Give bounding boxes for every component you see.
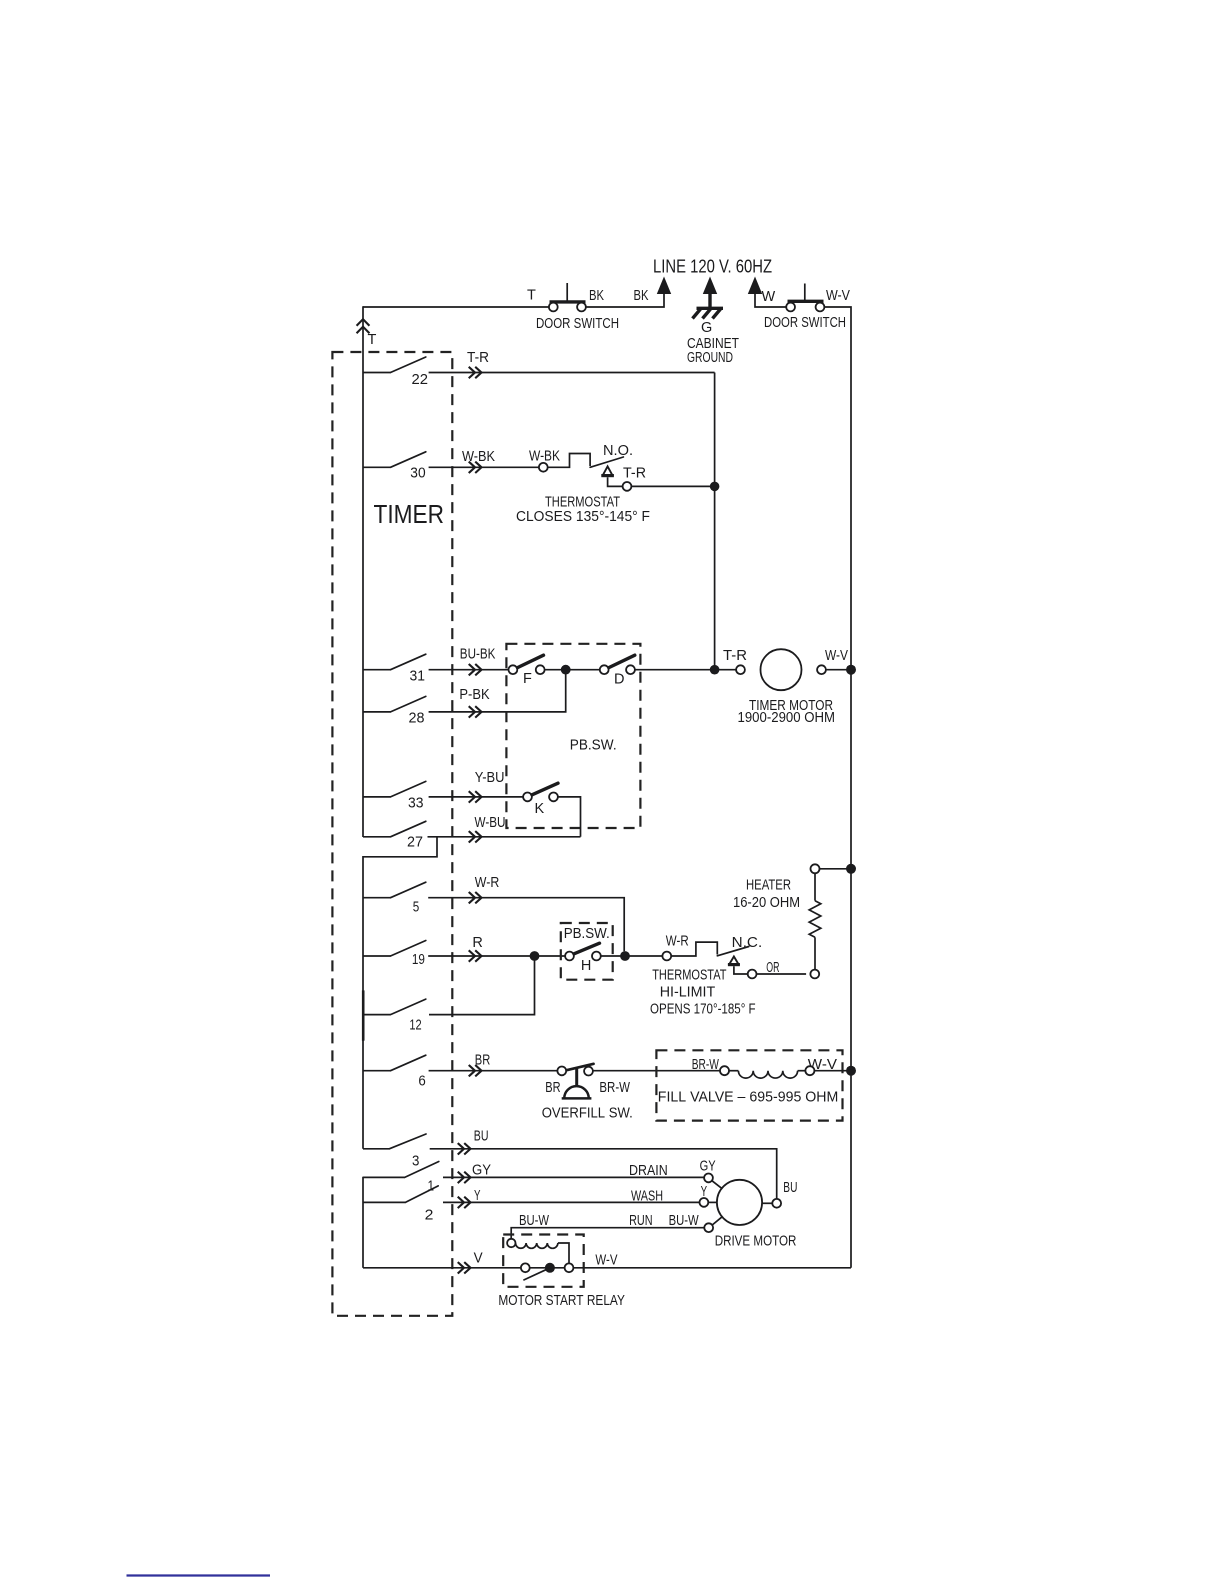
svg-text:H: H bbox=[581, 958, 591, 974]
label BR terminal bbox=[545, 1080, 560, 1096]
svg-text:12: 12 bbox=[409, 1017, 421, 1033]
svg-text:T-R: T-R bbox=[623, 466, 646, 482]
label T bbox=[527, 288, 536, 304]
svg-text:Y: Y bbox=[701, 1184, 708, 1200]
wire switch 31 to contact F bbox=[429, 669, 509, 671]
motor start relay coil bbox=[507, 1239, 569, 1264]
label W bbox=[762, 289, 776, 305]
timer switch 31 bbox=[363, 654, 426, 684]
wire vertical node T-R bbox=[714, 373, 716, 670]
wire switch 6 to overfill switch bbox=[429, 1070, 558, 1072]
label W-BK terminal bbox=[529, 449, 560, 465]
label W-V relay output bbox=[595, 1253, 617, 1269]
label DRIVE MOTOR bbox=[715, 1234, 797, 1250]
push button switch H dashed box bbox=[561, 923, 613, 980]
svg-text:THERMOSTAT: THERMOSTAT bbox=[652, 968, 726, 984]
wire switch 1 DRAIN to drive motor GY bbox=[443, 1176, 704, 1178]
label P-BK bbox=[459, 687, 489, 703]
label DOOR SWITCH bbox=[536, 316, 619, 332]
svg-text:OVERFILL SW.: OVERFILL SW. bbox=[542, 1106, 633, 1122]
wire switch 3 to drive motor BU bbox=[430, 1149, 777, 1199]
connector chevrons row 6 bbox=[470, 1066, 482, 1076]
timer switch 33 bbox=[363, 781, 426, 811]
junction node F-D bbox=[561, 665, 571, 675]
drive motor bbox=[700, 1174, 782, 1233]
svg-text:K: K bbox=[535, 801, 545, 817]
svg-text:BK: BK bbox=[634, 288, 649, 304]
svg-text:30: 30 bbox=[410, 466, 425, 482]
label BR-W bbox=[692, 1057, 719, 1073]
svg-text:T-R: T-R bbox=[467, 350, 489, 366]
contact F bbox=[509, 655, 545, 687]
label BK bbox=[589, 288, 604, 304]
svg-text:27: 27 bbox=[407, 835, 423, 851]
wire overfill switch to fill valve bbox=[593, 1070, 720, 1072]
svg-text:F: F bbox=[523, 671, 532, 687]
label W-V bbox=[826, 288, 850, 304]
svg-text:31: 31 bbox=[410, 669, 426, 685]
thermostat N.O. closes 135-145F bbox=[539, 454, 632, 491]
overfill switch bbox=[557, 1064, 593, 1099]
connector chevrons row 3 bbox=[459, 1144, 471, 1154]
label Y motor terminal bbox=[701, 1184, 708, 1200]
timer switch 12 bbox=[363, 999, 426, 1033]
wire switch 19 to contact H bbox=[428, 955, 565, 957]
label T-R bbox=[723, 648, 747, 664]
svg-text:PB.SW.: PB.SW. bbox=[570, 737, 617, 753]
svg-text:W-BK: W-BK bbox=[529, 449, 560, 465]
svg-text:DOOR SWITCH: DOOR SWITCH bbox=[536, 316, 619, 332]
heater 16-20 ohm bbox=[809, 864, 851, 978]
junction node 5/19 bbox=[620, 951, 630, 961]
label BU-BK bbox=[460, 646, 496, 662]
junction W-V bus / timer motor bbox=[846, 665, 856, 675]
label BU-W motor terminal bbox=[669, 1213, 699, 1229]
label MOTOR START RELAY bbox=[498, 1293, 625, 1309]
label TIMER bbox=[374, 499, 445, 529]
label CABINET GROUND bbox=[687, 336, 739, 366]
timer switch 27 bbox=[363, 821, 426, 850]
svg-text:Y: Y bbox=[474, 1188, 481, 1204]
svg-text:1900-2900 OHM: 1900-2900 OHM bbox=[738, 710, 836, 726]
svg-text:D: D bbox=[614, 672, 624, 688]
label G bbox=[701, 320, 712, 336]
label BR bbox=[475, 1052, 491, 1068]
timer switch 28 bbox=[363, 696, 426, 726]
label BK bbox=[634, 288, 649, 304]
label W-BK bbox=[462, 449, 495, 465]
svg-text:P-BK: P-BK bbox=[459, 687, 489, 703]
svg-text:DRIVE MOTOR: DRIVE MOTOR bbox=[715, 1234, 797, 1250]
svg-text:Y-BU: Y-BU bbox=[475, 770, 505, 786]
svg-text:OR: OR bbox=[766, 960, 779, 976]
svg-text:W-R: W-R bbox=[666, 933, 689, 949]
connector chevrons row 30 bbox=[470, 462, 482, 472]
svg-text:6: 6 bbox=[418, 1074, 425, 1090]
wire contact H to hi-limit bbox=[601, 955, 663, 957]
label LINE 120 V. 60HZ bbox=[653, 257, 772, 277]
label W-V bbox=[825, 648, 848, 664]
svg-text:W-BU: W-BU bbox=[475, 815, 506, 831]
svg-text:MOTOR START RELAY: MOTOR START RELAY bbox=[498, 1293, 625, 1309]
timer switch 2 bbox=[363, 1186, 438, 1223]
wire switch 33 to contact K bbox=[429, 796, 523, 798]
junction W-V bus / fill valve bbox=[846, 1066, 856, 1076]
junction W-V bus / heater bbox=[846, 864, 856, 874]
timer switch 22 bbox=[363, 357, 428, 388]
label DOOR SWITCH bbox=[764, 315, 846, 331]
line terminal arrow G bbox=[703, 277, 717, 309]
timer switch 6 bbox=[363, 1055, 426, 1090]
timer switch 30 bbox=[363, 452, 426, 482]
label GY motor terminal bbox=[700, 1158, 716, 1174]
wire switch 28 riser to node F-D bbox=[429, 670, 566, 712]
svg-text:LINE 120 V. 60HZ: LINE 120 V. 60HZ bbox=[653, 257, 772, 277]
svg-text:16-20 OHM: 16-20 OHM bbox=[733, 895, 800, 911]
timer dashed box bbox=[332, 352, 452, 1316]
svg-text:PB.SW.: PB.SW. bbox=[564, 926, 610, 942]
contact K bbox=[523, 783, 558, 817]
fill valve coil bbox=[720, 1066, 814, 1078]
svg-text:R: R bbox=[472, 935, 482, 951]
wire switch 30 to thermostat bbox=[429, 466, 539, 468]
blue footer rule bbox=[127, 1574, 271, 1576]
junction node 19/12 bbox=[530, 951, 540, 961]
svg-text:WASH: WASH bbox=[631, 1189, 663, 1205]
wire timer motor to W-V bus bbox=[826, 669, 851, 671]
contact H bbox=[565, 943, 601, 974]
wire contact D to timer motor bbox=[635, 669, 715, 671]
svg-text:HEATER: HEATER bbox=[746, 878, 791, 894]
label THERMOSTAT HI-LIMIT OPENS 170-185 F bbox=[650, 968, 756, 1018]
label BR-W terminal bbox=[599, 1080, 630, 1096]
svg-text:5: 5 bbox=[413, 900, 420, 916]
wire contact K down to switch 27 row bbox=[558, 797, 581, 837]
svg-text:DOOR SWITCH: DOOR SWITCH bbox=[764, 315, 846, 331]
label OR bbox=[766, 960, 779, 976]
wire switch 5 drop to node R bbox=[428, 898, 624, 952]
svg-text:BU-BK: BU-BK bbox=[460, 646, 496, 662]
label W-R bbox=[475, 875, 500, 891]
wire door switch 1 to line arrow bbox=[586, 294, 664, 308]
contact D bbox=[600, 655, 635, 687]
wire junction to timer motor bbox=[715, 669, 737, 671]
label OVERFILL SW. bbox=[542, 1106, 633, 1122]
wire contact F to contact D bbox=[545, 669, 600, 671]
wire T bus left vertical upper bbox=[362, 306, 364, 837]
label BU-W bbox=[519, 1213, 549, 1229]
wire V row from T bus to relay bbox=[363, 1267, 521, 1269]
svg-text:RUN: RUN bbox=[629, 1213, 653, 1229]
wire fill valve to W-V bus bbox=[814, 1070, 851, 1072]
label V bbox=[474, 1251, 483, 1267]
wire switch 12 riser to node 19 bbox=[429, 956, 535, 1015]
connector chevrons on T bus bbox=[357, 319, 368, 332]
wire W-V bus right vertical bbox=[824, 307, 851, 1268]
connector chevrons row 31 bbox=[470, 665, 482, 675]
svg-text:W-V: W-V bbox=[595, 1253, 617, 1269]
label DRAIN bbox=[629, 1163, 668, 1179]
label R bbox=[472, 935, 482, 951]
label Y-BU bbox=[475, 770, 505, 786]
connector chevrons row 33 bbox=[470, 792, 482, 802]
wire T bus jog below switch 27 bbox=[363, 837, 437, 1149]
svg-text:33: 33 bbox=[408, 796, 424, 812]
line terminal arrow BK bbox=[657, 277, 671, 295]
wire top feeder from T bus to door switch 1 bbox=[363, 306, 549, 308]
motor start relay contact bbox=[521, 1263, 574, 1280]
svg-text:1: 1 bbox=[428, 1179, 435, 1195]
timer switch 5 bbox=[363, 882, 426, 916]
svg-text:BR: BR bbox=[545, 1080, 560, 1096]
svg-text:BK: BK bbox=[589, 288, 604, 304]
junction T-R / timer motor row bbox=[710, 665, 720, 675]
svg-text:19: 19 bbox=[412, 952, 425, 968]
connector chevrons row 5 bbox=[470, 893, 482, 903]
junction node T-R bbox=[710, 482, 720, 492]
cabinet ground symbol bbox=[693, 308, 724, 318]
thermostat hi-limit N.C. bbox=[662, 942, 756, 978]
svg-text:22: 22 bbox=[412, 372, 429, 388]
svg-text:BR-W: BR-W bbox=[692, 1057, 719, 1073]
label W-BU bbox=[475, 815, 506, 831]
line terminal arrow W bbox=[748, 277, 786, 308]
svg-text:T: T bbox=[368, 332, 377, 348]
svg-text:T-R: T-R bbox=[723, 648, 747, 664]
connector chevrons row 27 bbox=[470, 832, 482, 842]
svg-text:HI-LIMIT: HI-LIMIT bbox=[660, 985, 716, 1001]
svg-text:BU: BU bbox=[474, 1129, 489, 1145]
svg-text:FILL VALVE – 695-995 OHM: FILL VALVE – 695-995 OHM bbox=[658, 1090, 839, 1106]
label W-V bbox=[808, 1057, 838, 1073]
svg-text:W: W bbox=[762, 289, 776, 305]
wire switch 2 WASH to drive motor Y bbox=[443, 1201, 700, 1203]
label PB.SW. bbox=[564, 926, 610, 942]
connector chevrons row 22 bbox=[470, 368, 482, 378]
wire switch 22 to node T-R bbox=[429, 372, 715, 374]
label TIMER MOTOR 1900-2900 OHM bbox=[738, 698, 836, 726]
wire hi-limit to heater bbox=[757, 973, 807, 975]
connector chevrons row V bbox=[459, 1263, 471, 1273]
label T-R bbox=[623, 466, 646, 482]
timer switch 19 bbox=[363, 941, 426, 968]
svg-text:OPENS 170°-185° F: OPENS 170°-185° F bbox=[650, 1002, 756, 1018]
connector chevrons row 28 bbox=[470, 707, 482, 717]
door switch 1 bbox=[549, 283, 586, 311]
label BU bbox=[474, 1129, 489, 1145]
svg-text:W-BK: W-BK bbox=[462, 449, 495, 465]
motor start relay dashed box bbox=[503, 1235, 584, 1287]
label N.C. bbox=[732, 935, 763, 951]
svg-text:G: G bbox=[701, 320, 712, 336]
svg-text:TIMER: TIMER bbox=[374, 499, 445, 529]
svg-text:T: T bbox=[527, 288, 536, 304]
label FILL VALVE - 695-995 OHM bbox=[658, 1090, 839, 1106]
svg-text:BU: BU bbox=[783, 1180, 797, 1196]
svg-text:W-V: W-V bbox=[826, 288, 850, 304]
wire switch 27 to K drop bbox=[428, 836, 581, 838]
svg-text:2: 2 bbox=[425, 1207, 434, 1223]
door switch 2 bbox=[786, 284, 824, 312]
label WASH bbox=[631, 1189, 663, 1205]
label RUN bbox=[629, 1213, 653, 1229]
timer switch 3 bbox=[363, 1134, 426, 1170]
svg-text:BR: BR bbox=[475, 1052, 491, 1068]
label THERMOSTAT CLOSES 135-145 F bbox=[516, 495, 650, 526]
wire thermostat to node T-R bbox=[631, 485, 714, 487]
svg-text:GY: GY bbox=[472, 1163, 491, 1179]
svg-text:BU-W: BU-W bbox=[519, 1213, 549, 1229]
svg-text:V: V bbox=[474, 1251, 483, 1267]
wire relay to W-V bus bbox=[573, 1267, 851, 1269]
svg-text:28: 28 bbox=[409, 711, 425, 727]
label HEATER 16-20 OHM bbox=[733, 878, 800, 912]
connector chevrons row 19 bbox=[470, 951, 482, 961]
svg-text:3: 3 bbox=[412, 1154, 419, 1170]
svg-text:BU-W: BU-W bbox=[669, 1213, 699, 1229]
label BU motor terminal bbox=[783, 1180, 797, 1196]
wire RUN drive motor to relay coil bbox=[511, 1228, 704, 1239]
timer motor bbox=[736, 649, 826, 690]
connector chevrons row 2 bbox=[459, 1197, 471, 1207]
wire T bus lower segment bbox=[362, 1177, 364, 1268]
label W-R terminal bbox=[666, 933, 689, 949]
svg-text:CLOSES 135°-145° F: CLOSES 135°-145° F bbox=[516, 509, 650, 525]
label Y bbox=[474, 1188, 481, 1204]
label N.O. bbox=[603, 443, 633, 459]
label T node bbox=[368, 332, 377, 348]
svg-text:W-V: W-V bbox=[825, 648, 848, 664]
svg-text:W-R: W-R bbox=[475, 875, 500, 891]
connector chevrons row 1 bbox=[459, 1172, 471, 1182]
label GY bbox=[472, 1163, 491, 1179]
label T-R bbox=[467, 350, 489, 366]
svg-text:N.C.: N.C. bbox=[732, 935, 763, 951]
svg-text:N.O.: N.O. bbox=[603, 443, 633, 459]
svg-text:GY: GY bbox=[700, 1158, 716, 1174]
svg-text:GROUND: GROUND bbox=[687, 350, 733, 366]
push button switch dashed box bbox=[506, 644, 640, 828]
svg-text:BR-W: BR-W bbox=[599, 1080, 630, 1096]
fill valve dashed box bbox=[656, 1050, 842, 1120]
timer switch 1 bbox=[363, 1162, 439, 1195]
label PB.SW. bbox=[570, 737, 617, 753]
svg-text:DRAIN: DRAIN bbox=[629, 1163, 668, 1179]
